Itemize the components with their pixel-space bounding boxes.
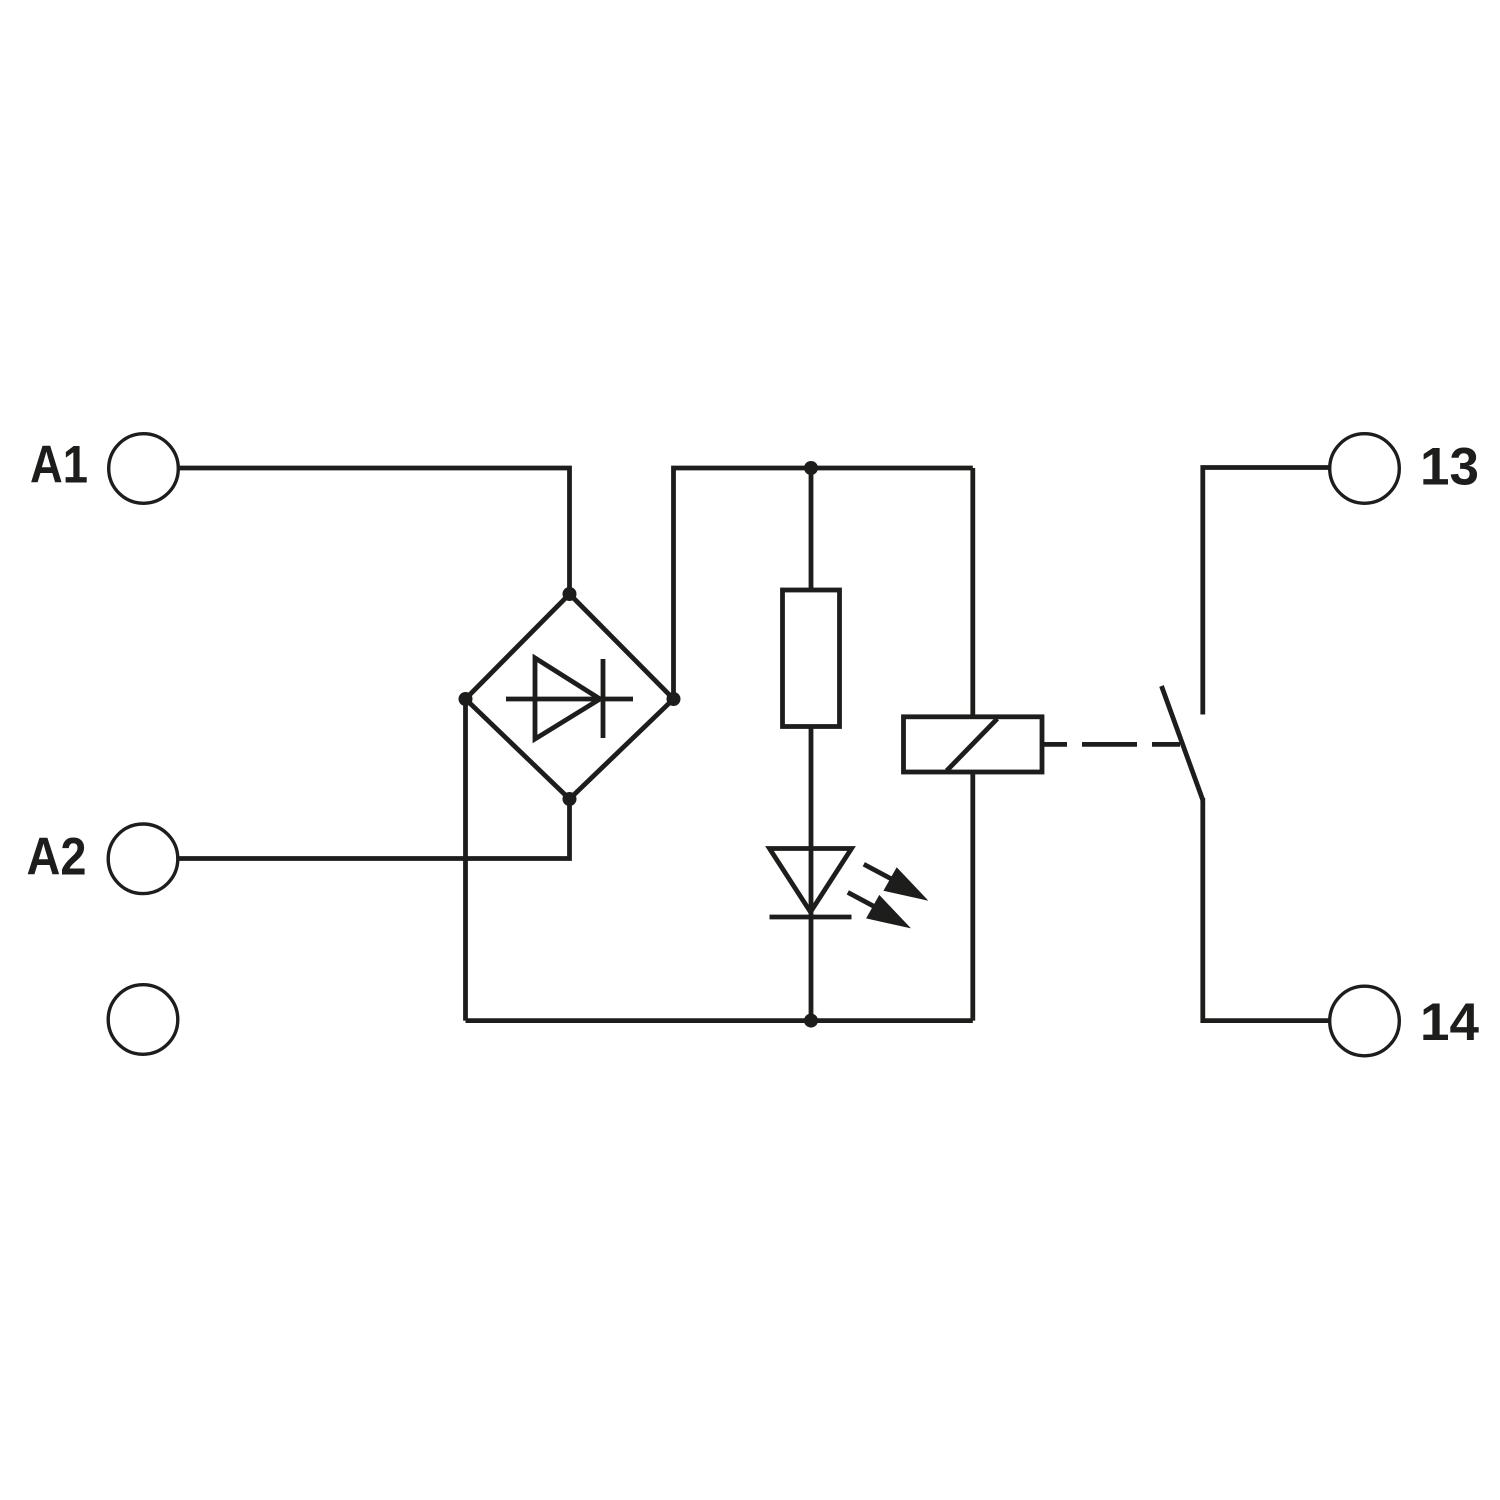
wire resistor through LED to bottom rail (809, 727, 814, 1021)
terminal blank (108, 985, 178, 1055)
wire coil to bottom rail (970, 772, 975, 1021)
LED arrow 1 (864, 864, 893, 880)
bridge node bottom (563, 792, 577, 806)
bridge node left (459, 692, 473, 706)
wire top rail to coil (970, 468, 975, 717)
terminal 13 (1330, 434, 1400, 504)
wire bridge right node to top rail (674, 468, 973, 699)
relay coil K1 (904, 717, 1043, 772)
bridge node right (667, 692, 681, 706)
bottom rail wire (466, 1018, 973, 1023)
resistor R1 (783, 590, 840, 727)
wire junction to resistor (809, 468, 814, 590)
LED arrow 2 (848, 892, 876, 907)
terminal A2 (108, 824, 178, 894)
bridge inner diode (506, 697, 633, 702)
bridge node top (563, 587, 577, 601)
svg-text:13: 13 (1420, 438, 1479, 497)
node junction top (804, 461, 818, 475)
terminal 14 (1330, 986, 1400, 1056)
switch contact blade (1162, 686, 1203, 800)
LED diode (770, 849, 852, 913)
wire bridge left node down (463, 699, 468, 1021)
wire contact to terminal 14 (1203, 798, 1330, 1021)
bridge rectifier diamond (466, 594, 674, 799)
terminal A1 (109, 434, 179, 504)
svg-text:14: 14 (1420, 993, 1479, 1052)
wire A2 to bridge bottom (178, 799, 570, 859)
wire terminal 13 to contact (1203, 468, 1330, 715)
node junction bottom (804, 1014, 818, 1028)
svg-text:A2: A2 (27, 828, 87, 887)
svg-text:A1: A1 (30, 436, 88, 495)
dashed actuation link (1042, 742, 1180, 747)
wire A1 to bridge top (178, 468, 569, 594)
